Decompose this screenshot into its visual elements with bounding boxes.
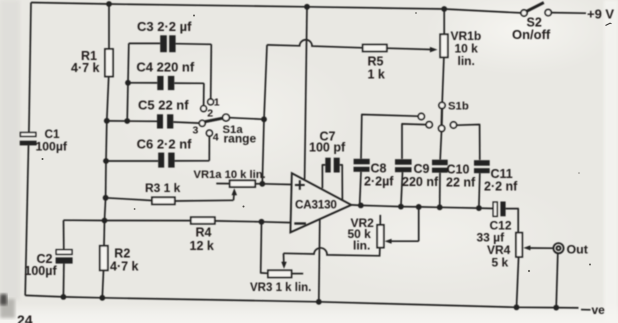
svg-text:5 k: 5 k [492,255,509,269]
switch S1b wiper [441,109,444,126]
switch S1b contact b [426,122,432,128]
junction output / VR2 wiper [416,204,422,210]
svg-text:100µf: 100µf [24,264,57,278]
resistor R2 [100,246,108,270]
svg-text:R3 1 k: R3 1 k [145,181,181,195]
junction C3-C4 bus / C4 [125,80,131,86]
switch S1a contact 3 [199,120,205,126]
+ input mark [295,184,305,186]
svg-text:C4 220 nf: C4 220 nf [136,59,194,74]
wiper arrow into VR1a [233,192,236,200]
- input mark [294,222,306,224]
capacitor C9 [395,159,412,165]
junction S1a pole node [261,116,267,122]
junction -ve rail / VR4 [514,304,520,310]
node - input [259,219,265,225]
capacitor C5 [107,120,157,122]
svg-text:R4: R4 [196,226,212,240]
switch S1b pole [439,102,445,108]
potentiometer VR1b [443,9,445,34]
junction output / C8 [358,203,364,209]
resistor R5 1k [363,45,387,52]
switch S1a wiper lever [205,118,223,122]
wire - input [262,221,291,224]
switch S1a contact 2 [201,106,207,112]
capacitor C1 [20,133,35,137]
wire S1b a to C8 [361,115,418,159]
svg-text:4: 4 [213,132,219,144]
capacitor C2 [63,220,65,250]
svg-text:lin.: lin. [458,54,475,68]
wire output line [351,205,493,209]
potentiometer VR4 [516,233,522,257]
svg-text:220 nf: 220 nf [402,175,439,189]
switch S1a pole [223,114,230,121]
svg-text:1: 1 [214,97,220,109]
junction node A / R4 / C2 [102,218,108,224]
junction -ve rail / R2 [99,295,105,301]
svg-text:3: 3 [193,125,199,137]
wire jack to bottom rail [556,253,558,307]
junction output / C9 [398,204,404,210]
junction -ve rail / output jack [553,305,559,311]
junction -ve rail / op-amp V- lead [316,299,322,305]
switch S1a contact 4 [206,130,212,136]
junction -ve rail / C2 [61,294,67,300]
svg-text:R5: R5 [368,54,384,68]
svg-text:VR1a 10 k lin.: VR1a 10 k lin. [194,169,266,181]
wire left supply rail [29,3,31,133]
potentiometer VR3 wiper [283,253,285,262]
switch S1b contact c [439,125,445,131]
junction output / C10 [437,204,443,210]
resistor R4 [105,220,191,222]
capacitor C12 [493,202,497,216]
svg-text:22 nf: 22 nf [446,176,476,190]
wire -ve bottom rail [25,295,578,308]
wire - input node down to VR3 [261,222,268,273]
wire S2 to +9V [551,12,586,15]
svg-text:4·7 k: 4·7 k [71,61,100,75]
junction C3-C4 bus / C5 wire [124,118,130,124]
potentiometer VR2 [379,215,381,225]
switch S1b contact a [418,113,424,119]
svg-text:2·2µf: 2·2µf [364,175,394,189]
svg-text:C5 22 nf: C5 22 nf [138,97,189,112]
svg-text:ve: ve [592,303,606,317]
capacitor C7 [325,158,330,173]
wire V+ pin from top rail [305,7,307,180]
wire + input [262,183,291,186]
capacitor C10 [432,160,448,166]
potentiometer VR1a [230,180,256,187]
wire S1a node down to + input node [262,45,267,184]
switch S1b contact d [450,122,456,128]
wire S1b d to C11 [457,125,480,160]
svg-text:100µf: 100µf [36,140,68,154]
svg-text:S1b: S1b [448,100,469,112]
svg-text:100 pf: 100 pf [309,140,346,154]
wire node line B (C3/C4 left bus) [127,43,129,121]
capacitor C11 [474,160,490,166]
capacitor C4 [128,82,157,84]
capacitor C6 [106,160,158,162]
svg-text:+9 V: +9 V [587,6,614,21]
wire S1b b to C9 [402,124,426,159]
junction +9V rail / op-amp V+ lead [304,4,310,10]
wire V- pin to bottom rail [319,220,320,302]
wire +9V top rail [31,3,521,13]
wire to R5 with hop over V+ line [267,40,363,48]
svg-text:On/off: On/off [512,27,551,42]
-ve label [581,309,591,311]
svg-text:24: 24 [17,312,33,323]
node + input [259,181,265,187]
wire node line A (R1 to R2) [104,121,107,246]
wire S1b c to C10 [440,132,441,160]
junction node A / C5 [104,118,110,124]
junction node A / C6 [103,158,109,164]
svg-text:2: 2 [207,108,213,120]
junction node A / R3 [103,195,109,201]
svg-text:Out: Out [567,243,588,257]
op-amp U1 CA3130 [290,173,351,232]
wire S1a pole to node [229,118,264,120]
svg-text:C3 2·2 µf: C3 2·2 µf [137,19,192,34]
potentiometer VR3 body [268,270,292,277]
svg-text:1 k: 1 k [368,67,385,81]
switch S1a contact 1 [208,99,214,105]
svg-text:CA3130: CA3130 [295,199,337,212]
junction +9V rail / VR1b [441,6,447,12]
svg-text:C10: C10 [447,163,470,177]
junction +9V rail / R1 [106,1,112,7]
resistor R1 [108,4,110,49]
svg-text:R2: R2 [114,247,130,261]
svg-text:4·7 k: 4·7 k [110,260,139,274]
svg-text:C6 2·2 nf: C6 2·2 nf [137,136,193,151]
junction output / C11 [476,205,482,211]
svg-text:range: range [224,132,257,146]
svg-text:lin.: lin. [353,239,370,253]
wire VR2 bottom to VR3 wiper (hop over V- line) [284,248,380,256]
svg-text:C8: C8 [371,162,387,176]
svg-text:VR3 1 k lin.: VR3 1 k lin. [250,282,311,294]
switch S2 on/off [521,10,527,16]
svg-text:12 k: 12 k [190,239,214,253]
output jack [553,243,563,253]
capacitor C3 [129,42,160,44]
resistor R3 [106,198,152,201]
svg-text:C9: C9 [414,162,430,176]
svg-text:2·2 nf: 2·2 nf [484,180,518,194]
capacitor C8 [354,159,370,165]
